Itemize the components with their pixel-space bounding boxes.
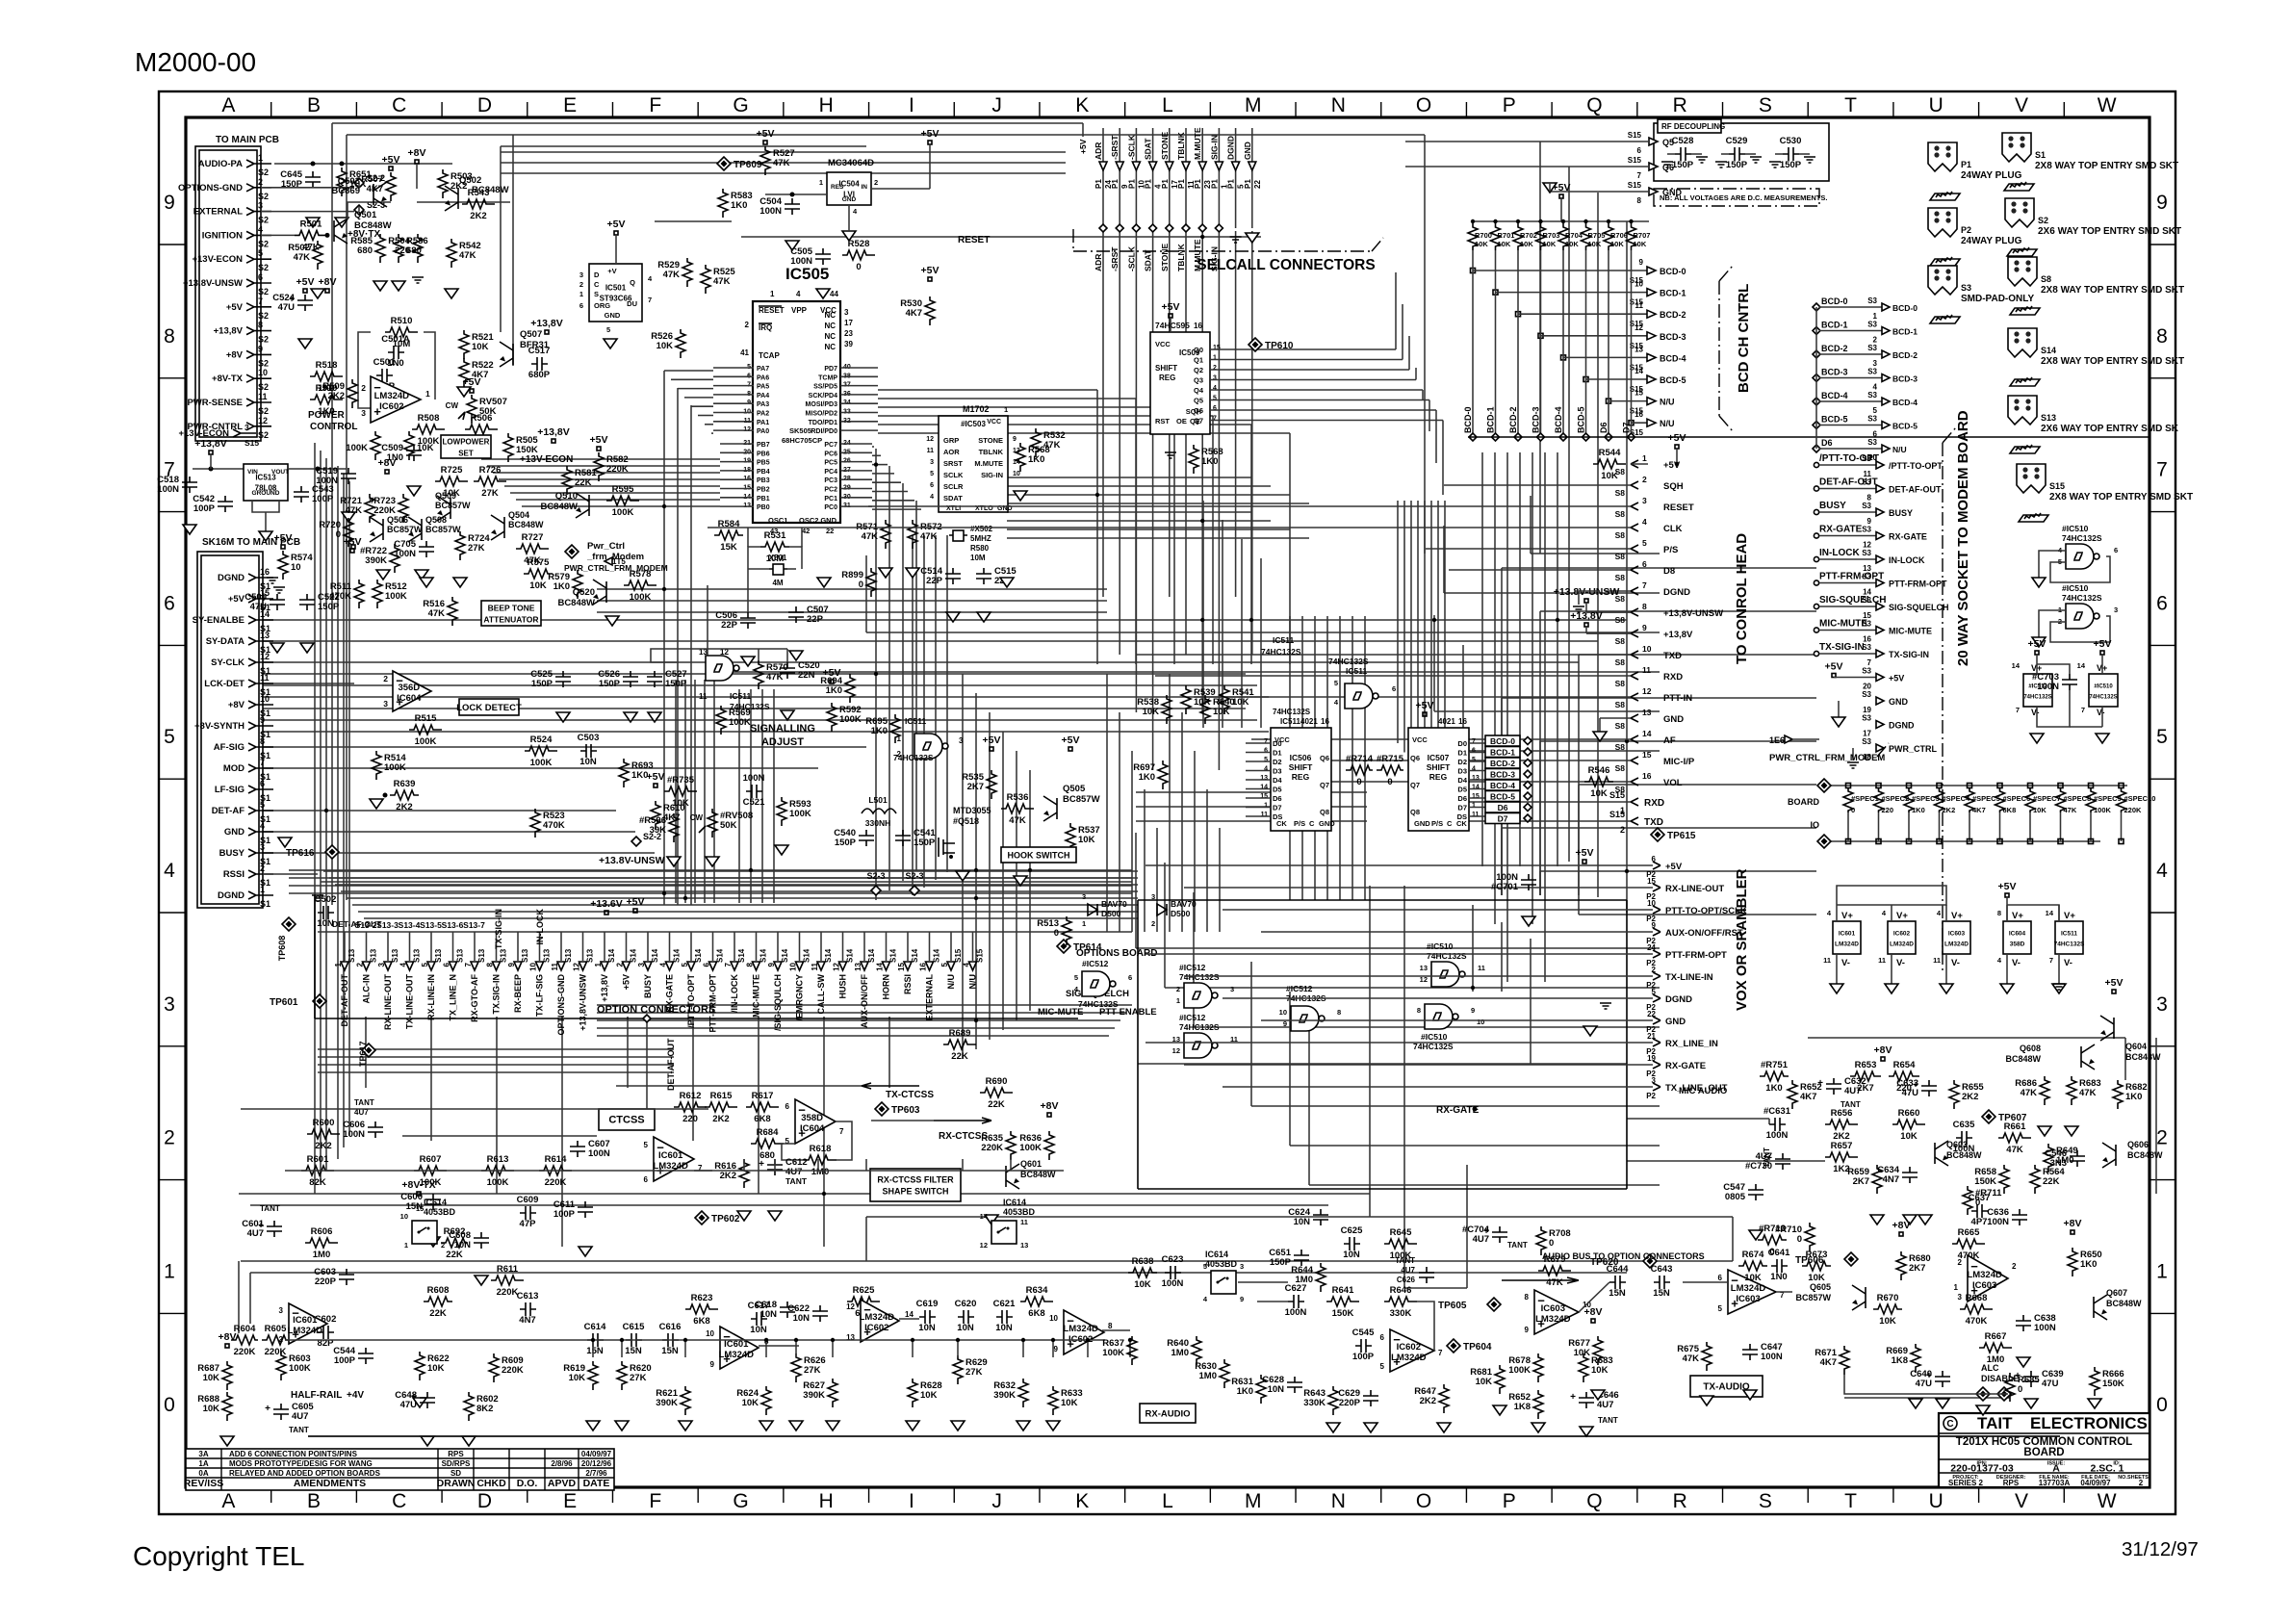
resistor R539 [1181,685,1191,714]
svg-text:IC511: IC511 [1273,635,1294,645]
svg-text:V-: V- [1896,958,1905,968]
resistor R572 [908,520,917,549]
capacitor C619 [919,1310,936,1324]
svg-text:Q4: Q4 [1194,386,1204,395]
capacitor C526 [623,671,638,687]
svg-text:3: 3 [279,1306,284,1315]
svg-text:D4: D4 [1457,776,1467,785]
svg-text:+5V: +5V [2028,638,2046,650]
svg-text:5MHZ: 5MHZ [970,534,991,543]
svg-text:+5V: +5V [647,771,665,783]
svg-text:BOARD: BOARD [2023,1447,2064,1458]
svg-text:R595: R595 [612,484,634,495]
svg-text:PTT-TO-OPT/SCLK: PTT-TO-OPT/SCLK [1665,906,1747,916]
svg-text:VCC: VCC [1274,735,1290,744]
svg-text:100K: 100K [385,591,407,602]
ground r681 [1493,1405,1506,1415]
svg-text:TX-LINE-OUT: TX-LINE-OUT [405,974,415,1029]
svg-text:+8V: +8V [319,276,337,288]
svg-text:#C701: #C701 [1491,882,1519,892]
svg-text:R702: R702 [1520,231,1537,240]
svg-text:R617: R617 [752,1091,774,1101]
wire ignition [261,234,295,236]
svg-text:3: 3 [377,962,386,967]
testpoint TP615 [1651,828,1664,841]
svg-text:BCD-1: BCD-1 [1821,321,1848,330]
ground c527 [648,712,661,722]
svg-text:2K7: 2K7 [1857,1083,1873,1094]
svg-text:BC848W: BC848W [540,502,578,512]
svg-text:680P: 680P [528,370,551,380]
svg-text:C503: C503 [578,733,600,743]
svg-text:S13: S13 [434,948,443,963]
resistor R690 [980,1088,1013,1097]
svg-text:5: 5 [681,962,689,967]
svg-text:S3: S3 [1867,296,1877,305]
svg-text:47K: 47K [428,608,446,619]
svg-text:SD: SD [450,1469,461,1478]
resistor R513 [1062,916,1071,945]
svg-text:74HC132S: 74HC132S [1179,1022,1220,1032]
nand #IC510 opt6 [1425,1004,1453,1029]
svg-text:24WAY PLUG: 24WAY PLUG [1961,170,2022,181]
svg-text:13: 13 [1420,964,1428,972]
svg-text:R524: R524 [530,735,553,745]
testpoint TP610 [1248,338,1262,351]
nand IC511b [914,734,942,759]
svg-text:S14: S14 [716,948,725,963]
resistor R680 [1896,1251,1906,1280]
svg-text:2X8 WAY TOP ENTRY SMD SKT: 2X8 WAY TOP ENTRY SMD SKT [2049,492,2193,503]
svg-text:Q605: Q605 [1810,1282,1831,1292]
svg-text:D6: D6 [1457,794,1467,803]
svg-text:C619: C619 [916,1299,939,1309]
svg-text:PA3: PA3 [757,401,769,408]
diode BAV70 a [1088,904,1097,915]
resistor R537 [1066,823,1075,852]
svg-text:#C631: #C631 [1763,1106,1791,1117]
svg-text:1K0: 1K0 [2125,1092,2142,1102]
svg-text:BCD-4: BCD-4 [1490,781,1515,790]
svg-text:C621: C621 [993,1299,1016,1309]
svg-text:IC614: IC614 [1205,1250,1228,1259]
svg-text:BCD-5: BCD-5 [1577,406,1586,433]
svg-text:TP608: TP608 [277,936,287,962]
dash-dot bcd boundary [1719,266,1733,431]
svg-text:IC601: IC601 [1839,931,1856,938]
bcd ch cntrl rows [1813,296,1918,462]
svg-text:8: 8 [1417,1006,1421,1015]
svg-text:T: T [1844,94,1857,116]
svg-text:N: N [1331,94,1346,116]
svg-text:S: S [594,290,599,298]
label beep tone attenuator [481,601,541,626]
svg-text:LM324D: LM324D [374,391,410,401]
svg-text:PWR_CTRL_FRM_MODEM: PWR_CTRL_FRM_MODEM [1769,753,1885,763]
svg-text:7: 7 [648,296,652,304]
svg-text:VOL: VOL [1663,778,1683,788]
wire lattice horizontal [239,123,2125,1398]
capacitor C501 [376,369,393,382]
svg-text:SIG-IN: SIG-IN [1209,135,1219,160]
svg-text:2: 2 [897,750,902,759]
selcall connector P1 pins [1078,127,1262,271]
svg-text:STONE: STONE [1160,132,1170,160]
svg-text:RSSI: RSSI [903,974,913,994]
svg-text:R668: R668 [1966,1293,1988,1303]
svg-text:R: R [1673,94,1687,116]
svg-text:APVD: APVD [548,1478,577,1489]
capacitor C603 [339,1269,354,1285]
resistor R510 [385,327,418,337]
resistor R681 [1495,1365,1505,1394]
svg-text:R700: R700 [1475,231,1492,240]
power +5V ic509 [1169,314,1172,318]
svg-text:D.O.: D.O. [517,1478,538,1489]
svg-text:S3: S3 [1862,526,1871,534]
capacitor C505 [815,248,831,265]
svg-text:2K2: 2K2 [1943,806,1956,814]
ground txa row [1909,1399,1922,1408]
ground selcall gnd [1246,233,1259,243]
ground ic501 [604,339,617,348]
svg-text:6: 6 [1718,1274,1723,1282]
svg-text:220: 220 [395,245,410,256]
svg-text:+8V: +8V [378,457,397,469]
svg-text:Q504: Q504 [508,510,529,520]
wire audio stubs [591,1159,1132,1357]
svg-text:DGND: DGND [1226,136,1236,160]
capacitor C641 [1771,1259,1788,1273]
svg-text:P1: P1 [1145,179,1153,189]
svg-text:4: 4 [258,224,263,234]
svg-text:11: 11 [1823,956,1831,965]
svg-text:04/09/97: 04/09/97 [581,1450,612,1458]
svg-text:1E6: 1E6 [1769,735,1785,745]
svg-text:+8V: +8V [1041,1100,1059,1112]
svg-text:1K8: 1K8 [1892,1355,1908,1366]
svg-text:16: 16 [260,567,270,577]
svg-text:W: W [2098,94,2117,116]
svg-text:S13-5: S13-5 [420,920,442,930]
svg-text:8: 8 [2156,325,2168,348]
svg-text:BC848W: BC848W [2005,1054,2041,1064]
resistor R687 [222,1361,232,1390]
svg-text:Pwr_Ctrl: Pwr_Ctrl [587,541,625,552]
svg-text:5: 5 [606,325,610,334]
svg-text:IC507: IC507 [1428,753,1450,762]
capacitor C514 [945,568,961,584]
svg-text:D1: D1 [1273,749,1282,758]
svg-text:10M: 10M [970,554,986,562]
svg-text:TCAP: TCAP [759,351,780,360]
svg-text:6: 6 [258,272,263,282]
svg-text:47U: 47U [2042,1379,2059,1389]
svg-text:4: 4 [796,290,801,298]
svg-text:ADR: ADR [1094,142,1103,160]
resistor R505 [503,433,513,462]
svg-text:2: 2 [2139,1479,2144,1487]
svg-text:#SPEC8: #SPEC8 [2064,794,2092,803]
svg-text:S15: S15 [245,438,259,448]
svg-text:6K8: 6K8 [1028,1308,1044,1319]
svg-text:22K: 22K [446,1250,463,1260]
svg-text:BCD-3: BCD-3 [1892,374,1918,384]
svg-text:IC604: IC604 [2009,931,2026,938]
svg-text:R615: R615 [710,1091,733,1101]
svg-text:0: 0 [1769,1247,1774,1257]
resistor R684 [751,1139,784,1148]
svg-text:74HC132S: 74HC132S [1427,951,1467,961]
svg-text:13: 13 [260,631,270,640]
svg-text:#IC510: #IC510 [2094,684,2113,690]
resistor R511 [354,580,364,608]
svg-text:T: T [1844,1490,1857,1512]
power +8V q607 [2071,1230,2074,1234]
svg-text:2: 2 [383,674,388,683]
svg-text:14: 14 [876,962,885,970]
svg-text:15N: 15N [625,1346,642,1356]
op-amp IC603 f [1968,1255,2008,1302]
svg-text:9: 9 [1639,258,1644,267]
capacitor C637 [1971,1204,1988,1218]
svg-text:TANT: TANT [1507,1241,1528,1250]
label TX-AUDIO [1690,1376,1763,1397]
nand IC511a [706,656,734,681]
svg-text:1K0: 1K0 [1028,454,1044,465]
power +5V mcu2 [928,277,932,281]
svg-text:+5V: +5V [627,896,645,908]
svg-text:16: 16 [1321,717,1329,726]
svg-text:+5V: +5V [1825,661,1843,673]
wire opamp outs [759,1345,799,1347]
svg-text:R575: R575 [528,557,550,568]
svg-text:10: 10 [400,1212,408,1221]
ground r724 [453,578,467,587]
capacitor C616 [662,1333,679,1347]
svg-text:C614: C614 [584,1322,606,1332]
svg-text:P1: P1 [1161,179,1170,189]
svg-text:S2: S2 [258,168,269,177]
svg-text:SMD-PAD-ONLY: SMD-PAD-ONLY [1961,294,2034,304]
svg-text:4: 4 [1334,698,1339,707]
svg-text:S2: S2 [258,430,269,440]
svg-text:8: 8 [1637,196,1642,205]
svg-text:10N: 10N [918,1323,936,1333]
svg-text:+13.8V-UNSW: +13.8V-UNSW [1554,586,1620,598]
svg-text:1: 1 [819,178,823,187]
svg-text:0: 0 [2156,1394,2168,1416]
svg-text:2: 2 [1176,985,1180,993]
pot RV508 [708,809,717,838]
svg-text:0: 0 [164,1394,175,1416]
svg-text:AF: AF [1663,735,1676,746]
svg-text:100K: 100K [789,809,811,819]
svg-text:11: 11 [260,673,270,683]
svg-text:21: 21 [1647,1032,1656,1041]
svg-text:GND: GND [1889,697,1909,707]
svg-text:C: C [1309,819,1315,828]
transistor Q503 [373,184,374,205]
wire audio-pa [274,163,452,165]
svg-text:+5V: +5V [607,219,626,230]
svg-text:CHKD: CHKD [476,1478,506,1489]
svg-text:4: 4 [853,207,858,216]
svg-text:9: 9 [1013,436,1017,443]
svg-text:5: 5 [1472,757,1476,763]
ground r602 [462,1436,476,1446]
svg-text:C620: C620 [955,1299,977,1309]
svg-text:1M0: 1M0 [313,1250,330,1260]
svg-text:S2: S2 [258,192,269,201]
svg-text:SDAT: SDAT [1144,249,1153,271]
svg-text:IC603: IC603 [1541,1303,1565,1314]
svg-text:4U7: 4U7 [247,1228,264,1239]
svg-text:A: A [221,94,235,116]
svg-text:M: M [1245,1490,1262,1512]
svg-text:+: + [265,1404,270,1414]
svg-text:B: B [307,94,321,116]
svg-text:0A: 0A [198,1469,208,1478]
svg-text:15: 15 [1635,389,1643,398]
svg-text:10K: 10K [742,1398,759,1408]
svg-text:+13V-ECON: +13V-ECON [192,254,243,265]
svg-text:SQH: SQH [1663,481,1684,492]
svg-text:IN-LOCK: IN-LOCK [1889,555,1925,565]
svg-text:D1: D1 [1457,749,1467,758]
svg-text:#SPEC5: #SPEC5 [1972,794,2000,803]
svg-text:N/U: N/U [968,974,978,990]
grounds audio row [586,1421,1060,1431]
svg-text:5: 5 [1380,1362,1385,1371]
svg-text:S2: S2 [258,216,269,225]
power +13.8V reg [209,451,213,454]
inductor L501 [862,809,896,813]
svg-text:GND: GND [1663,714,1684,725]
svg-text:S14: S14 [630,948,638,963]
resistor R529 [682,258,692,287]
resistor R523 [530,809,540,838]
svg-text:TAIT: TAIT [1977,1414,2013,1432]
svg-text:6: 6 [1652,855,1657,864]
svg-text:P2: P2 [1646,1092,1656,1100]
svg-text:VCC: VCC [1155,340,1171,348]
ground c514 [946,612,960,622]
resistor R592 [827,703,837,732]
svg-text:100K: 100K [1102,1348,1124,1358]
svg-text:Q7: Q7 [1320,781,1329,789]
svg-text:R692: R692 [444,1226,466,1237]
ground rv508 [706,857,719,866]
svg-text:11: 11 [1472,812,1480,818]
svg-text:24WAY PLUG: 24WAY PLUG [1961,236,2022,246]
wire q501c [348,202,391,219]
svg-text:F: F [649,94,661,116]
svg-text:1: 1 [1213,355,1217,362]
svg-text:68HC705CP: 68HC705CP [782,436,822,445]
svg-text:9: 9 [260,715,265,725]
svg-text:8: 8 [1337,1008,1341,1017]
svg-text:17: 17 [844,319,853,327]
capacitor C614b [587,1333,604,1347]
resistor R507 [386,172,396,201]
ground C645 [306,218,320,227]
svg-text:4K7: 4K7 [906,308,922,319]
svg-text:220K: 220K [606,464,629,475]
svg-text:AUX-ON/OFF: AUX-ON/OFF [860,974,869,1028]
svg-text:39K: 39K [650,825,667,836]
svg-text:8: 8 [1525,1293,1530,1302]
transistor Q505 [1056,798,1058,819]
spec rail bottom [1831,840,2100,842]
svg-text:PA7: PA7 [757,366,769,373]
svg-text:R528: R528 [848,239,870,249]
svg-text:TP617: TP617 [358,1041,368,1067]
wire ic509 q pins [1210,348,1251,350]
capacitor C517 [531,357,548,371]
svg-text:1K0: 1K0 [1139,772,1155,783]
resistor R605 [262,1335,289,1345]
svg-text:1M0: 1M0 [1171,1348,1189,1358]
resistor R714 [1346,765,1373,775]
svg-text:100N: 100N [2034,1323,2056,1333]
svg-text:L: L [1162,94,1173,116]
resistor R653 [1850,1071,1881,1081]
resistor R693 [619,759,629,787]
svg-text:10: 10 [1635,280,1643,289]
resistor R654 [1889,1071,1919,1081]
resistor R521 [459,330,469,359]
svg-text:47K: 47K [2079,1088,2097,1098]
svg-text:0: 0 [2018,1384,2022,1395]
svg-text:74HC132S: 74HC132S [1261,647,1301,657]
svg-text:C501A: C501A [381,334,410,345]
svg-text:RSSI: RSSI [223,869,245,880]
capacitor C622 [812,1305,828,1322]
svg-text:#SPEC3: #SPEC3 [1912,794,1940,803]
resistor R525 [701,265,710,294]
resistor R694 [845,674,855,703]
svg-text:AUDIO-PA: AUDIO-PA [198,159,243,169]
svg-text:+5V: +5V [983,735,1001,746]
svg-text:BCD-2: BCD-2 [1490,759,1515,768]
svg-text:10N: 10N [957,1323,974,1333]
resistor R623 [685,1304,718,1314]
svg-text:1K0: 1K0 [826,685,842,696]
label LOCK DETECT [459,699,519,715]
ground q520 [605,616,619,626]
wire fb1 [358,332,371,408]
resistor R723 [399,494,408,523]
svg-text:12: 12 [1635,323,1643,332]
svg-text:RX-LINE-IN: RX-LINE-IN [426,974,436,1020]
svg-text:PA5: PA5 [757,384,769,391]
power +8V r636 [1047,1113,1051,1117]
svg-text:-SCLK: -SCLK [1126,134,1136,160]
power +8V tx2 [1591,1319,1595,1323]
svg-text:DGND: DGND [1889,721,1915,731]
svg-text:2K2: 2K2 [396,802,412,812]
svg-text:SELCALL CONNECTORS: SELCALL CONNECTORS [1197,257,1375,273]
resistor R639 [390,790,419,800]
svg-text:R518: R518 [316,360,338,371]
svg-text:Q: Q [1586,1490,1602,1512]
svg-text:680: 680 [357,245,373,256]
svg-text:47K: 47K [1009,815,1026,826]
svg-text:A: A [221,1490,235,1512]
ground c506 [741,657,755,666]
svg-text:Q8: Q8 [1410,808,1420,816]
